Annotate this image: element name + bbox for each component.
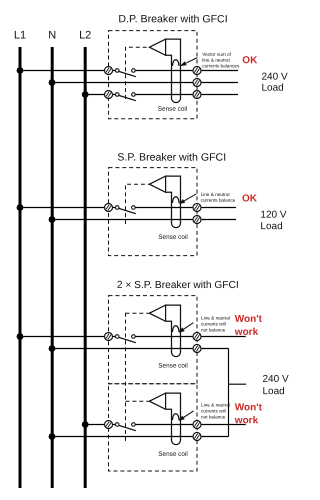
svg-text:Sense coil: Sense coil bbox=[158, 451, 188, 458]
svg-text:D.P. Breaker with GFCI: D.P. Breaker with GFCI bbox=[118, 13, 227, 25]
terminal in L2 s1 bbox=[105, 91, 113, 99]
svg-text:L2: L2 bbox=[79, 29, 91, 41]
switch contacts pole 1 row L1 bbox=[115, 69, 135, 73]
svg-text:work: work bbox=[234, 415, 259, 426]
junction L2 tap 1 bbox=[82, 91, 89, 98]
switch blade pole 1 row L2 bbox=[119, 95, 136, 100]
svg-text:L1: L1 bbox=[14, 29, 26, 41]
junction L1 tap 1 bbox=[17, 67, 24, 74]
svg-text:Vector sum of: Vector sum of bbox=[202, 52, 231, 57]
terminal out N s3A bbox=[193, 345, 201, 353]
wire N row box A bbox=[52, 348, 229, 350]
svg-text:OK: OK bbox=[242, 55, 258, 66]
junction L1 tap 3 bbox=[17, 333, 24, 340]
sense coil loop 1 bbox=[166, 39, 181, 102]
svg-text:currents balance: currents balance bbox=[201, 198, 236, 203]
svg-text:currents will: currents will bbox=[201, 409, 226, 414]
junction N tap 3A bbox=[49, 345, 56, 352]
switch contacts pole 3A bbox=[115, 335, 135, 339]
switch contacts pole 3B bbox=[115, 423, 135, 427]
bus L2 bbox=[84, 47, 87, 488]
svg-text:Load: Load bbox=[260, 221, 282, 232]
switch blade pole 3A bbox=[119, 337, 136, 342]
wire L1 row box A bbox=[20, 336, 246, 338]
sense coil loop 3A bbox=[166, 305, 181, 357]
wire N row section2 bbox=[52, 219, 236, 221]
terminal out L1 s2 bbox=[193, 204, 201, 212]
op-amp trip amplifier 1 bbox=[149, 39, 165, 55]
terminal in L1 s3A bbox=[105, 333, 113, 341]
sense coil dome 3A bbox=[173, 326, 180, 332]
terminal in L1 s1 bbox=[105, 67, 113, 75]
switch contacts pole 1 row L2 bbox=[115, 93, 135, 97]
sense coil loop 3B bbox=[166, 393, 181, 445]
op-amp trip amplifier 3B bbox=[149, 393, 165, 409]
handle tie dashed link bbox=[125, 313, 127, 441]
svg-text:work: work bbox=[234, 327, 259, 338]
annotation arrow 3A bbox=[178, 323, 193, 333]
breaker box 3B (S.P.) bbox=[109, 384, 198, 471]
svg-text:OK: OK bbox=[242, 193, 258, 204]
terminal out L1 s3A bbox=[193, 333, 201, 341]
neutral tie wire bbox=[228, 349, 230, 437]
breaker box 3A (S.P.) bbox=[109, 296, 198, 384]
terminal out N s2 bbox=[193, 216, 201, 224]
trip linkage dashed 3B bbox=[126, 400, 150, 402]
terminal out L1 s1 bbox=[193, 67, 201, 75]
switch contacts pole 2 bbox=[115, 206, 135, 210]
wire L1 row section2 bbox=[20, 207, 236, 209]
svg-text:Sense coil: Sense coil bbox=[158, 106, 188, 113]
svg-text:120 V: 120 V bbox=[260, 210, 286, 221]
trip linkage dashed 1 bbox=[126, 47, 150, 99]
annotation arrow 2 bbox=[179, 194, 197, 204]
svg-text:240 V: 240 V bbox=[261, 72, 287, 83]
trip linkage dashed 2 bbox=[126, 184, 150, 224]
terminal in L1 s2 bbox=[105, 204, 113, 212]
svg-text:Won't: Won't bbox=[235, 314, 263, 325]
annotation text 1 bbox=[202, 52, 240, 69]
terminal out N s1 bbox=[193, 79, 201, 87]
svg-text:N: N bbox=[48, 29, 56, 41]
svg-text:not balance: not balance bbox=[201, 415, 226, 420]
bus N bbox=[51, 47, 54, 488]
wire L1 row section1 bbox=[20, 70, 238, 72]
svg-text:Line & neutral: Line & neutral bbox=[201, 403, 230, 408]
wire L2 row box B bbox=[85, 424, 246, 426]
junction L1 tap 2 bbox=[17, 204, 24, 211]
breaker box 1 (D.P.) bbox=[109, 31, 198, 119]
svg-text:2 × S.P. Breaker with GFCI: 2 × S.P. Breaker with GFCI bbox=[117, 280, 239, 291]
svg-text:Line & neutral: Line & neutral bbox=[201, 192, 230, 197]
trip linkage dashed 3A bbox=[126, 312, 150, 314]
svg-text:currents balances: currents balances bbox=[202, 63, 240, 68]
terminal out L2 s3B bbox=[193, 421, 201, 429]
svg-text:S.P. Breaker with GFCI: S.P. Breaker with GFCI bbox=[117, 152, 226, 164]
breaker box 2 (S.P.) bbox=[109, 168, 198, 256]
switch blade pole 2 bbox=[119, 208, 136, 213]
junction N tap 2 bbox=[49, 216, 56, 223]
svg-text:Line & neutral: Line & neutral bbox=[201, 316, 230, 321]
annotation text 3B bbox=[201, 403, 230, 420]
annotation arrow 3B bbox=[178, 411, 193, 421]
op-amp trip amplifier 3A bbox=[149, 305, 165, 321]
terminal out N s3B bbox=[193, 433, 201, 441]
switch blade pole 1 row L1 bbox=[119, 71, 136, 76]
sense coil dome 2 bbox=[173, 197, 180, 203]
junction N tap 1 bbox=[49, 79, 56, 86]
svg-text:line & neutral: line & neutral bbox=[202, 58, 229, 63]
wire N row box B bbox=[52, 436, 229, 438]
wire L2 row section1 bbox=[85, 94, 238, 96]
annotation text 2 bbox=[201, 192, 236, 203]
op-amp trip amplifier 2 bbox=[149, 176, 165, 192]
sense coil dome 1 bbox=[173, 60, 180, 66]
svg-text:Load: Load bbox=[261, 83, 283, 94]
annotation arrow 1 bbox=[180, 58, 197, 66]
junction N tap 3B bbox=[49, 433, 56, 440]
wire N row section1 bbox=[52, 82, 238, 84]
bus L1 bbox=[19, 47, 22, 488]
svg-text:Won't: Won't bbox=[235, 402, 263, 413]
sense coil loop 2 bbox=[166, 176, 181, 228]
sense coil dome 3B bbox=[173, 414, 180, 420]
svg-text:Load: Load bbox=[262, 386, 284, 397]
terminal out L2 s1 bbox=[193, 91, 201, 99]
svg-text:Sense coil: Sense coil bbox=[158, 362, 188, 369]
junction L2 tap 3 bbox=[82, 421, 89, 428]
svg-text:Sense coil: Sense coil bbox=[158, 234, 188, 241]
switch blade pole 3B bbox=[119, 425, 136, 430]
svg-text:240 V: 240 V bbox=[262, 374, 288, 385]
annotation text 3A bbox=[201, 316, 230, 333]
load tap wire bbox=[229, 383, 247, 385]
svg-text:not balance: not balance bbox=[201, 328, 226, 333]
svg-text:currents will: currents will bbox=[201, 322, 226, 327]
terminal in L2 s3B bbox=[105, 421, 113, 429]
